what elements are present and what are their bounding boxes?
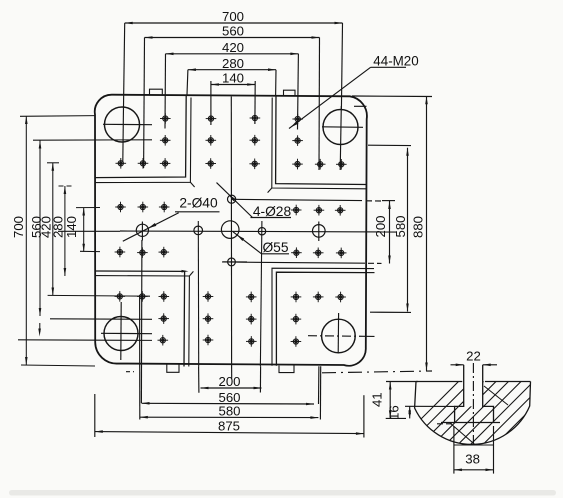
dim 875 bottom extension right — [363, 395, 365, 437]
M20 tapped hole 17 — [115, 202, 126, 213]
locating hole center circle — [221, 221, 239, 239]
dimension 880 right line — [426, 96, 428, 370]
pad bottom-right offset line — [272, 268, 374, 366]
vertical centerline below plate — [231, 366, 233, 379]
dim 580 bottom extension right — [319, 366, 321, 419]
M20 tapped hole 1 — [160, 113, 171, 124]
dimension 560 bottom line — [142, 402, 315, 405]
dim 880 right extension bottom — [322, 371, 432, 373]
M20 tapped hole 35 — [246, 292, 257, 303]
dim 200 bottom extension right — [259, 366, 261, 392]
tie-bar hole top-left — [105, 107, 140, 142]
dim 880 right extension top — [352, 95, 432, 98]
dimension 580 bottom line — [140, 416, 319, 418]
detail slot bottom — [441, 422, 500, 424]
Ø40 hole right — [313, 225, 326, 238]
dim 420 left extension bottom — [48, 294, 150, 297]
svg-text:280: 280 — [222, 56, 244, 71]
detail slot centerline — [472, 363, 474, 448]
dim 16/41 extension bottom — [386, 418, 444, 423]
svg-text:880: 880 — [411, 216, 426, 238]
M20 tapped hole 6 — [206, 113, 217, 124]
svg-text:560: 560 — [222, 24, 244, 39]
svg-text:22: 22 — [466, 349, 481, 364]
dim 16 extension mid — [405, 405, 455, 407]
svg-text:140: 140 — [64, 216, 79, 238]
M20 tapped hole 39 — [246, 336, 257, 347]
T-slot vertical left — [197, 221, 199, 366]
M20 tapped hole 34 — [203, 291, 214, 302]
T-slot horizontal upper — [232, 199, 362, 200]
tie-bar hole BR crosshair — [308, 335, 364, 338]
dimension 875 bottom line — [95, 432, 364, 434]
scanner strip bottom — [9, 490, 556, 496]
dim 560 top extension right — [318, 38, 321, 171]
M20 tapped hole 41 — [313, 292, 324, 303]
Ø28 hole east — [258, 228, 265, 235]
dim 700 left extension bottom — [21, 365, 95, 366]
tie-bar hole top-right — [323, 110, 358, 145]
dim 200 bottom extension left — [198, 366, 200, 392]
Ø28 hole south — [228, 258, 236, 266]
vertical centerline — [230, 97, 232, 367]
dimension 420 top line — [166, 53, 299, 55]
dimension 140 left line — [83, 208, 85, 252]
pad bottom-right extension to right dims — [366, 272, 375, 274]
dim 38 extension right — [493, 426, 495, 474]
svg-text:16: 16 — [387, 405, 402, 420]
dimension 41 detail — [389, 382, 391, 419]
dim 580 bottom extension left — [139, 295, 141, 420]
detail arc-bottom connector — [454, 444, 494, 446]
platen plate outline — [95, 95, 367, 366]
Ø40 hole left — [136, 224, 148, 236]
tie-bar hole bottom-right — [322, 319, 356, 353]
M20 tapped hole 32 — [158, 313, 169, 324]
pad top-right edge — [276, 95, 367, 184]
T-slot horizontal lower — [222, 262, 365, 263]
M20 tapped hole 13 — [292, 135, 303, 146]
M20 tapped hole 40 — [291, 292, 302, 303]
M20 tapped hole 9 — [250, 135, 261, 146]
dimension 700 left line — [25, 116, 27, 365]
dim 580 right extension top — [368, 144, 411, 146]
dimension 580 right line — [407, 148, 409, 312]
dim 700 top extension left — [124, 23, 125, 107]
dim 140 left extension top stub — [76, 207, 100, 209]
M20 tapped hole 43 — [291, 314, 302, 325]
detail hatching — [390, 365, 563, 450]
svg-text:140: 140 — [222, 71, 244, 86]
dim 280 top extension left — [186, 70, 189, 95]
pad top-right corner tick — [268, 188, 272, 193]
dimension 280 top line — [188, 69, 276, 71]
pad top-left edge — [95, 95, 186, 178]
svg-text:200: 200 — [373, 215, 388, 237]
M20 tapped hole 7 — [250, 113, 261, 124]
M20 tapped hole 31 — [159, 291, 170, 302]
tie-bar hole TL crosshair — [103, 123, 152, 125]
leader 4-Ø28 — [217, 183, 253, 218]
svg-text:38: 38 — [465, 451, 480, 466]
M20 tapped hole 10 — [205, 158, 216, 169]
M20 tapped hole 15 — [315, 159, 326, 170]
M20 tapped hole 29 — [115, 291, 126, 302]
dim 420 left extension tick — [47, 162, 59, 164]
detail counter hatch lines — [450, 423, 476, 446]
svg-text:200: 200 — [218, 374, 240, 389]
svg-text:44-M20: 44-M20 — [373, 53, 418, 68]
dim 280 left extension tick — [59, 185, 72, 187]
M20 tapped hole 25 — [335, 205, 346, 216]
svg-text:700: 700 — [222, 9, 244, 24]
dim 560 left extension bottom — [18, 339, 152, 342]
dim 560 left tail segment — [39, 323, 41, 332]
M20 tapped hole 4 — [138, 158, 149, 169]
dimension 200 bottom line — [201, 387, 262, 389]
M20 tapped hole 23 — [291, 205, 302, 216]
dim 420 top extension right — [297, 54, 300, 130]
dim 200 right tick top — [382, 200, 395, 202]
dim 140 top extension right — [254, 81, 256, 124]
dim 38 extension left — [453, 426, 455, 474]
svg-text:41: 41 — [370, 392, 385, 407]
horizontal centerline — [58, 230, 120, 232]
M20 tapped hole 14 — [292, 159, 303, 170]
leader 44-M20 — [289, 67, 371, 128]
dimension 140 top line — [211, 84, 255, 86]
dim 280 top extension right — [275, 70, 277, 97]
M20 tapped hole 11 — [249, 159, 260, 170]
dim 41 extension top — [386, 381, 418, 383]
M20 tapped hole 2 — [160, 135, 171, 146]
pad bottom-left edge arrow — [182, 270, 189, 273]
dimension 700 top line — [125, 22, 343, 24]
M20 tapped hole 19 — [159, 202, 170, 213]
dimension 200 right line — [389, 201, 391, 264]
pad bottom-left edge — [95, 271, 184, 367]
M20 tapped hole 12 — [292, 114, 303, 125]
pad top-left offset line — [95, 98, 191, 183]
pad bottom-left offset line — [95, 276, 189, 367]
pad bottom-right edge — [276, 272, 366, 366]
M20 tapped hole 20 — [115, 247, 126, 258]
dim 140 top extension left — [210, 81, 212, 125]
Ø28 hole west — [194, 226, 203, 235]
svg-text:875: 875 — [218, 419, 240, 434]
dimension 560 top line — [145, 37, 320, 39]
M20 tapped hole 38 — [203, 335, 214, 346]
M20 tapped hole 22 — [159, 247, 170, 258]
tie-bar BR centerline extension — [364, 335, 375, 337]
pad bottom-left corner tick — [189, 271, 193, 276]
M20 tapped hole 30 — [137, 291, 148, 302]
top tab left — [150, 89, 163, 94]
stray dash-dot left of 560 extension — [126, 371, 137, 373]
M20 tapped hole 18 — [138, 202, 149, 213]
M20 tapped hole 26 — [291, 247, 302, 258]
dimension 38 detail — [454, 469, 494, 471]
svg-text:580: 580 — [218, 404, 240, 419]
leader 2-Ø40 — [123, 213, 179, 242]
M20 tapped hole 5 — [160, 158, 171, 169]
detail section outline — [415, 382, 531, 445]
svg-text:2-Ø40: 2-Ø40 — [179, 196, 218, 211]
bottom tab right — [279, 366, 294, 373]
M20 tapped hole 3 — [116, 158, 127, 169]
M20 tapped hole 27 — [313, 248, 324, 259]
M20 tapped hole 42 — [335, 292, 346, 303]
svg-text:420: 420 — [222, 40, 244, 55]
dim 560 top extension left — [143, 38, 146, 169]
dim 560 bottom extension left — [140, 240, 143, 403]
dim 560 left extension mid — [50, 318, 152, 321]
dim 560 bottom extension right — [318, 366, 320, 404]
M20 tapped hole 37 — [246, 314, 257, 325]
Ø40 left crosshair — [141, 222, 143, 241]
dimension 280 left line — [64, 186, 66, 276]
dim 700 top extension right — [341, 23, 342, 110]
M20 tapped hole 44 — [291, 336, 302, 347]
Ø28 hole north — [228, 195, 236, 203]
dim 875 bottom extension left — [94, 394, 96, 437]
tie-bar hole TR crosshair — [322, 126, 363, 129]
svg-text:700: 700 — [11, 216, 26, 238]
dimension 560 left line — [39, 141, 41, 317]
M20 tapped hole 8 — [206, 135, 217, 146]
M20 tapped hole 36 — [203, 313, 214, 324]
tie-bar hole BL crosshair — [101, 332, 152, 334]
dim 420 top extension left — [164, 54, 167, 129]
svg-text:580: 580 — [393, 215, 408, 237]
M20 tapped hole 28 — [336, 248, 347, 259]
detail T-slot profile — [455, 365, 494, 423]
bottom tab left — [167, 364, 179, 373]
Ø28 south crosshair — [223, 261, 248, 263]
pad top-left corner tick — [190, 182, 194, 187]
dimension 22 detail — [451, 364, 464, 366]
M20 tapped hole 16 — [336, 159, 347, 170]
pad top-right offset line — [272, 98, 366, 189]
svg-text:560: 560 — [218, 390, 240, 405]
dim 580 right extension bottom — [370, 311, 411, 313]
Ø40 right crosshair — [318, 222, 320, 242]
M20 tapped hole 24 — [314, 205, 325, 216]
dim 560 left extension top — [33, 139, 152, 141]
dim 140 left extension bottom stub — [80, 250, 100, 252]
dimension 420 left line — [52, 163, 54, 296]
T-slot vertical right — [260, 221, 262, 366]
svg-text:4-Ø28: 4-Ø28 — [253, 204, 292, 219]
svg-text:Ø55: Ø55 — [262, 240, 288, 255]
top tab right — [284, 90, 296, 95]
dim 700 left extension top — [20, 115, 95, 118]
dimension 16 detail — [409, 406, 411, 418]
M20 tapped hole 33 — [158, 335, 169, 346]
tie-bar hole bottom-left — [104, 317, 138, 351]
leader Ø55 — [233, 232, 262, 254]
M20 tapped hole 21 — [137, 247, 148, 258]
